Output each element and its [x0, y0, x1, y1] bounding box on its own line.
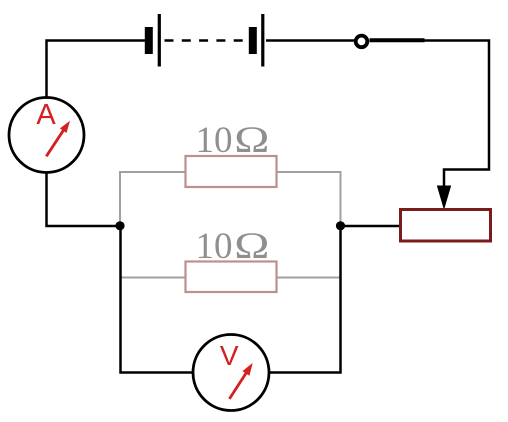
svg-text:10: 10: [196, 120, 233, 161]
svg-text:10: 10: [196, 226, 233, 267]
svg-text:Ω: Ω: [234, 120, 269, 161]
svg-text:V: V: [220, 340, 239, 371]
svg-text:A: A: [36, 99, 56, 131]
svg-text:Ω: Ω: [234, 226, 269, 267]
